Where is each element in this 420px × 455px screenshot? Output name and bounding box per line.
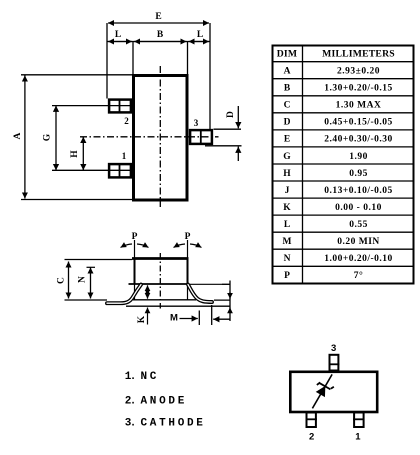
table row G xyxy=(283,152,368,162)
svg-text:D: D xyxy=(226,111,236,118)
svg-text:MILLIMETERS: MILLIMETERS xyxy=(322,49,395,60)
extension line E left xyxy=(106,23,108,99)
svg-text:0.00 - 0.10: 0.00 - 0.10 xyxy=(335,203,382,213)
table header DIM xyxy=(277,49,298,60)
svg-text:D: D xyxy=(284,118,291,128)
svg-text:2: 2 xyxy=(124,116,129,126)
svg-text:C: C xyxy=(57,277,67,284)
dimension N line xyxy=(90,268,92,299)
svg-text:0.13+0.10/-0.05: 0.13+0.10/-0.05 xyxy=(324,186,393,196)
dimension K arrow xyxy=(147,308,149,325)
lead pin 2 (upper left) xyxy=(109,99,131,114)
dimension N top tick xyxy=(87,266,96,268)
svg-text:3: 3 xyxy=(331,343,336,354)
svg-text:E: E xyxy=(284,135,290,145)
dimension K label xyxy=(137,315,147,323)
dimension A top extension xyxy=(21,74,132,76)
svg-text:M: M xyxy=(170,313,178,324)
right body-bottom tick xyxy=(222,283,231,285)
dimension C top extension xyxy=(65,259,133,261)
svg-text:0.20 MIN: 0.20 MIN xyxy=(337,237,380,247)
dimension M label xyxy=(170,313,178,324)
svg-text:A: A xyxy=(13,132,23,139)
svg-text:1.00+0.20/-0.10: 1.00+0.20/-0.10 xyxy=(324,254,393,264)
table row K xyxy=(283,203,382,213)
body bottom edge (side view) xyxy=(129,283,189,285)
svg-text:0.45+0.15/-0.05: 0.45+0.15/-0.05 xyxy=(324,118,393,128)
dimension H line xyxy=(82,137,84,171)
table outer border xyxy=(273,46,414,284)
M extension tick (lead tip) xyxy=(211,305,213,325)
dimension D top extension xyxy=(214,128,242,130)
table row P xyxy=(284,270,363,281)
svg-text:C: C xyxy=(284,101,291,111)
right dimension up arrow xyxy=(229,308,231,314)
extension line E right xyxy=(209,23,211,129)
svg-text:1.30 MAX: 1.30 MAX xyxy=(336,101,382,111)
table row J xyxy=(285,186,393,196)
pin number 2 xyxy=(124,116,129,126)
svg-text:E: E xyxy=(155,12,161,22)
centerline (side view) xyxy=(159,253,161,309)
svg-text:L: L xyxy=(284,220,290,230)
table row C xyxy=(284,101,382,111)
svg-text:1.30+0.20/-0.15: 1.30+0.20/-0.15 xyxy=(324,84,393,94)
body top edge (side view) xyxy=(132,257,189,260)
marking body outline xyxy=(290,372,377,412)
dimension G label xyxy=(43,133,53,141)
svg-text:0.55: 0.55 xyxy=(349,220,368,230)
svg-text:M: M xyxy=(283,237,292,247)
marking pin 2 (bottom left) xyxy=(306,413,317,428)
table row E xyxy=(284,135,393,145)
dimension D bottom extension xyxy=(205,145,242,147)
zener diode symbol xyxy=(314,379,334,398)
dimension E label xyxy=(155,12,161,22)
svg-text:ANODE: ANODE xyxy=(141,395,188,407)
dimension L label (left) xyxy=(115,30,121,40)
table column divider xyxy=(302,45,304,285)
svg-text:N: N xyxy=(284,254,291,264)
svg-text:3.: 3. xyxy=(125,418,135,430)
marking pin 3 (top) xyxy=(329,355,340,371)
package body outline (top view) xyxy=(134,76,188,201)
right dimension down arrow xyxy=(229,292,231,299)
svg-text:P: P xyxy=(284,271,290,281)
marking pin number 2 xyxy=(309,432,314,443)
svg-text:1.90: 1.90 xyxy=(349,152,368,162)
pin list line 2 ANODE xyxy=(125,395,187,407)
pin number 1 xyxy=(122,151,127,161)
dimension A line xyxy=(24,76,26,199)
vertical centerline (top view) xyxy=(159,66,161,207)
horizontal centerline (top view) xyxy=(80,136,219,138)
table row N xyxy=(284,254,393,264)
table row L xyxy=(284,220,368,230)
dimension G line xyxy=(55,106,57,171)
right J dimension extension vertical xyxy=(229,281,231,322)
angle P label (right) xyxy=(185,232,191,242)
table row B xyxy=(284,84,393,94)
svg-text:2: 2 xyxy=(309,432,314,443)
svg-text:1: 1 xyxy=(355,432,361,443)
angle P arc arrows (right) xyxy=(174,244,202,248)
dimension E line xyxy=(108,22,209,24)
dimension C line xyxy=(68,262,70,299)
svg-text:B: B xyxy=(284,84,291,94)
dimension D lower arrow xyxy=(237,147,239,161)
angle P reference line (right) xyxy=(187,240,189,300)
dimension N label xyxy=(78,276,88,283)
marking pin 1 (bottom right) xyxy=(353,413,364,428)
svg-text:2.93±0.20: 2.93±0.20 xyxy=(337,67,380,77)
svg-text:H: H xyxy=(70,150,80,158)
table row H xyxy=(283,169,368,179)
lead pin 2 centerline / G top extension xyxy=(52,105,131,107)
svg-text:K: K xyxy=(283,203,291,213)
lead foot lower reference line xyxy=(126,305,231,307)
extension line B right xyxy=(187,42,189,75)
svg-text:3: 3 xyxy=(194,118,199,128)
table row A xyxy=(284,67,380,77)
lead pin 1 centerline / G-H bottom extension xyxy=(52,169,131,171)
body left edge (side view) xyxy=(134,258,136,284)
dimension D upper arrow xyxy=(237,106,239,128)
svg-text:J: J xyxy=(285,186,290,196)
svg-text:K: K xyxy=(137,315,147,323)
seating plane line xyxy=(65,299,231,301)
svg-text:0.95: 0.95 xyxy=(349,169,368,179)
svg-text:N: N xyxy=(78,276,88,283)
svg-text:NC: NC xyxy=(141,371,160,383)
dimension J arrows (body bottom to seating) xyxy=(147,285,149,298)
svg-text:G: G xyxy=(43,133,53,141)
dimension D label xyxy=(226,111,236,118)
svg-text:H: H xyxy=(283,169,291,179)
body bottom extension to right xyxy=(189,283,231,285)
dimension L/B/L line xyxy=(107,41,210,43)
dimension L label (right) xyxy=(197,30,203,40)
svg-text:2.: 2. xyxy=(125,395,135,407)
svg-text:1.: 1. xyxy=(125,371,135,383)
marking pin number 1 xyxy=(355,432,361,443)
svg-text:L: L xyxy=(197,30,203,40)
angle P arc arrows (left) xyxy=(121,244,149,248)
dimension J label xyxy=(146,289,150,294)
table header MILLIMETERS xyxy=(322,49,395,60)
lead pin 3 (right) xyxy=(190,129,212,145)
table row M xyxy=(283,237,380,247)
table row D xyxy=(284,118,393,128)
dimension M arrow (right) xyxy=(213,318,229,320)
svg-text:A: A xyxy=(284,67,291,77)
angle P reference line (left) xyxy=(134,240,136,300)
svg-text:2.40+0.30/-0.30: 2.40+0.30/-0.30 xyxy=(324,135,393,145)
right gull-wing lead xyxy=(188,285,212,303)
svg-text:G: G xyxy=(283,152,291,162)
table row lines xyxy=(272,62,415,267)
left gull-wing lead xyxy=(107,285,141,304)
svg-text:7°: 7° xyxy=(354,270,364,281)
dimension H label xyxy=(70,150,80,158)
dimension A label xyxy=(13,132,23,139)
marking pin number 3 xyxy=(331,343,336,354)
dimension C label xyxy=(57,277,67,284)
svg-text:B: B xyxy=(157,30,164,40)
pin list line 1 NC xyxy=(125,371,159,383)
dimension M arrow (left) xyxy=(180,318,198,320)
svg-text:1: 1 xyxy=(122,151,127,161)
pin list line 3 CATHODE xyxy=(125,418,206,430)
svg-text:CATHODE: CATHODE xyxy=(141,418,206,430)
M extension tick (foot bend) xyxy=(198,311,200,326)
dimension B label xyxy=(157,30,164,40)
svg-text:DIM: DIM xyxy=(277,49,298,60)
angle P label (left) xyxy=(132,232,138,242)
body right edge (side view) xyxy=(187,258,189,284)
zener diode connection line xyxy=(312,374,332,408)
svg-text:L: L xyxy=(115,30,121,40)
extension line B left xyxy=(132,42,134,75)
pin number 3 xyxy=(194,118,199,128)
lead pin 1 (lower left) xyxy=(109,163,131,179)
dimension A bottom extension xyxy=(21,199,132,201)
